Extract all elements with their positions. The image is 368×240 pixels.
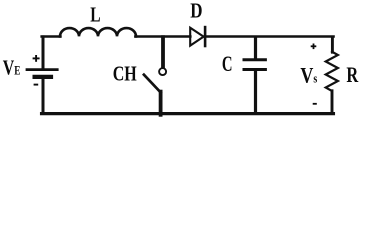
capacitor C top plate: [244, 58, 265, 61]
label C: [222, 52, 233, 77]
switch CH contact circle: [159, 68, 166, 75]
label VE: [3, 56, 21, 80]
wire bottom: [42, 112, 334, 115]
wire capacitor top lead: [254, 37, 257, 58]
capacitor C bottom plate: [244, 68, 265, 71]
svg-text:CH: CH: [113, 62, 137, 86]
battery plus sign: [33, 57, 40, 59]
battery VE positive plate: [27, 68, 57, 71]
resistor R zigzag: [326, 52, 338, 91]
wire right vertical bottom lead: [331, 91, 334, 114]
label R: [346, 62, 359, 87]
wire left vertical (source bottom lead): [42, 78, 45, 114]
svg-text:D: D: [190, 0, 202, 23]
svg-text:Vs: Vs: [300, 64, 317, 88]
label Vs: [300, 64, 317, 88]
wire left vertical (source top lead): [42, 37, 45, 68]
diode D triangle: [190, 28, 203, 46]
label L: [90, 3, 100, 27]
switch CH lever: [144, 75, 161, 93]
wire capacitor bottom lead: [254, 71, 257, 113]
diode D cathode bar: [204, 27, 207, 46]
wire switch top stub: [161, 37, 165, 67]
label CH: [113, 62, 137, 86]
wire top right segment: [205, 35, 334, 37]
output plus sign: [311, 45, 317, 47]
svg-text:R: R: [346, 62, 359, 87]
wire top left segment: [42, 35, 61, 37]
output minus sign: [313, 103, 317, 105]
inductor L: [60, 28, 136, 36]
label D: [190, 0, 202, 23]
svg-text:C: C: [222, 52, 233, 77]
wire right vertical top lead: [331, 37, 334, 52]
battery VE negative plate: [35, 75, 51, 79]
wire top middle segment: [135, 35, 190, 37]
battery minus sign: [34, 84, 39, 86]
svg-text:L: L: [90, 3, 100, 27]
svg-text:VE: VE: [3, 56, 21, 80]
wire switch bottom stub: [159, 92, 163, 115]
